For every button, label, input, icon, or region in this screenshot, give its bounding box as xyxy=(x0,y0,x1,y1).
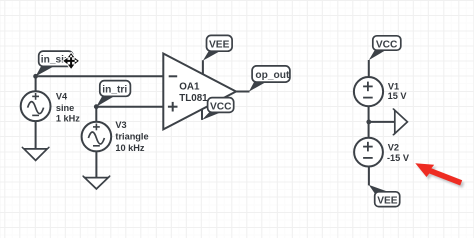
voltage source V1 (15 V) xyxy=(354,77,383,106)
wire net in_sine: junction to op-amp inverting input xyxy=(36,75,164,77)
net flag VCC (op-amp bottom) xyxy=(202,98,234,120)
svg-text:10 kHz: 10 kHz xyxy=(115,143,145,153)
node junction in_tri xyxy=(94,104,99,109)
voltage source V4 (sine 1 kHz) xyxy=(21,91,51,121)
red annotation arrow shadow xyxy=(418,166,465,188)
wire op-amp VEE power stub xyxy=(202,60,204,74)
wire V1 bottom to V2 top xyxy=(368,106,370,138)
svg-text:triangle: triangle xyxy=(115,132,148,142)
svg-text:V3: V3 xyxy=(115,120,126,130)
net flag VEE (op-amp top) xyxy=(203,35,232,60)
svg-text:in_tri: in_tri xyxy=(102,85,127,96)
wire VCC flag to V1 top xyxy=(368,60,370,77)
wire V2 bottom to VEE flag xyxy=(368,166,370,185)
node junction in_sine xyxy=(33,74,38,79)
wire node between V1 and V2 to right ground xyxy=(369,121,395,123)
wire V3 bottom to ground xyxy=(95,151,97,177)
net flag op_out xyxy=(249,66,290,92)
red annotation arrow xyxy=(415,163,462,185)
net flag in_si (in_sine) xyxy=(36,51,73,76)
svg-text:VCC: VCC xyxy=(210,101,232,112)
svg-text:1 kHz: 1 kHz xyxy=(56,113,80,123)
net flag in_tri xyxy=(96,81,130,107)
voltage source V3 (triangle 10 kHz) xyxy=(82,122,112,152)
op-amp OA1 TL081 xyxy=(163,54,236,130)
svg-text:V2: V2 xyxy=(388,143,399,153)
svg-text:VCC: VCC xyxy=(376,39,398,50)
net flag VEE (right bottom) xyxy=(369,185,400,207)
wire V4 top to node in_sine xyxy=(35,76,37,91)
svg-text:sine: sine xyxy=(56,103,74,113)
wire net in_tri: junction to op-amp non-inverting input xyxy=(96,106,163,108)
ground (right, pointing right) xyxy=(393,109,408,136)
svg-text:op_out: op_out xyxy=(255,70,290,81)
label OA1 TL081 text xyxy=(179,81,208,104)
label V2 value text xyxy=(387,143,410,164)
net flag VCC (right top) xyxy=(369,36,401,60)
wire op-amp VCC power stub xyxy=(201,109,203,120)
svg-text:15 V: 15 V xyxy=(388,91,408,101)
wire op-amp output xyxy=(236,91,250,93)
wire V4 bottom to ground xyxy=(35,121,37,149)
label V4 value text xyxy=(56,92,80,124)
move cursor over in_si flag xyxy=(63,53,79,69)
node junction between V1 and V2 xyxy=(366,120,371,125)
label V3 value text xyxy=(115,120,148,153)
svg-text:OA1: OA1 xyxy=(179,81,200,92)
svg-text:VEE: VEE xyxy=(377,196,398,207)
svg-text:V4: V4 xyxy=(56,92,68,102)
ground (below V3) xyxy=(83,176,111,189)
svg-text:TL081: TL081 xyxy=(179,93,208,104)
wire V3 top to node in_tri xyxy=(95,107,97,122)
svg-text:-15 V: -15 V xyxy=(387,153,410,163)
voltage source V2 (-15 V) xyxy=(354,138,383,167)
ground (below V4) xyxy=(22,147,50,161)
label V1 value text xyxy=(388,81,408,101)
svg-text:V1: V1 xyxy=(388,81,399,91)
svg-text:VEE: VEE xyxy=(209,39,230,50)
